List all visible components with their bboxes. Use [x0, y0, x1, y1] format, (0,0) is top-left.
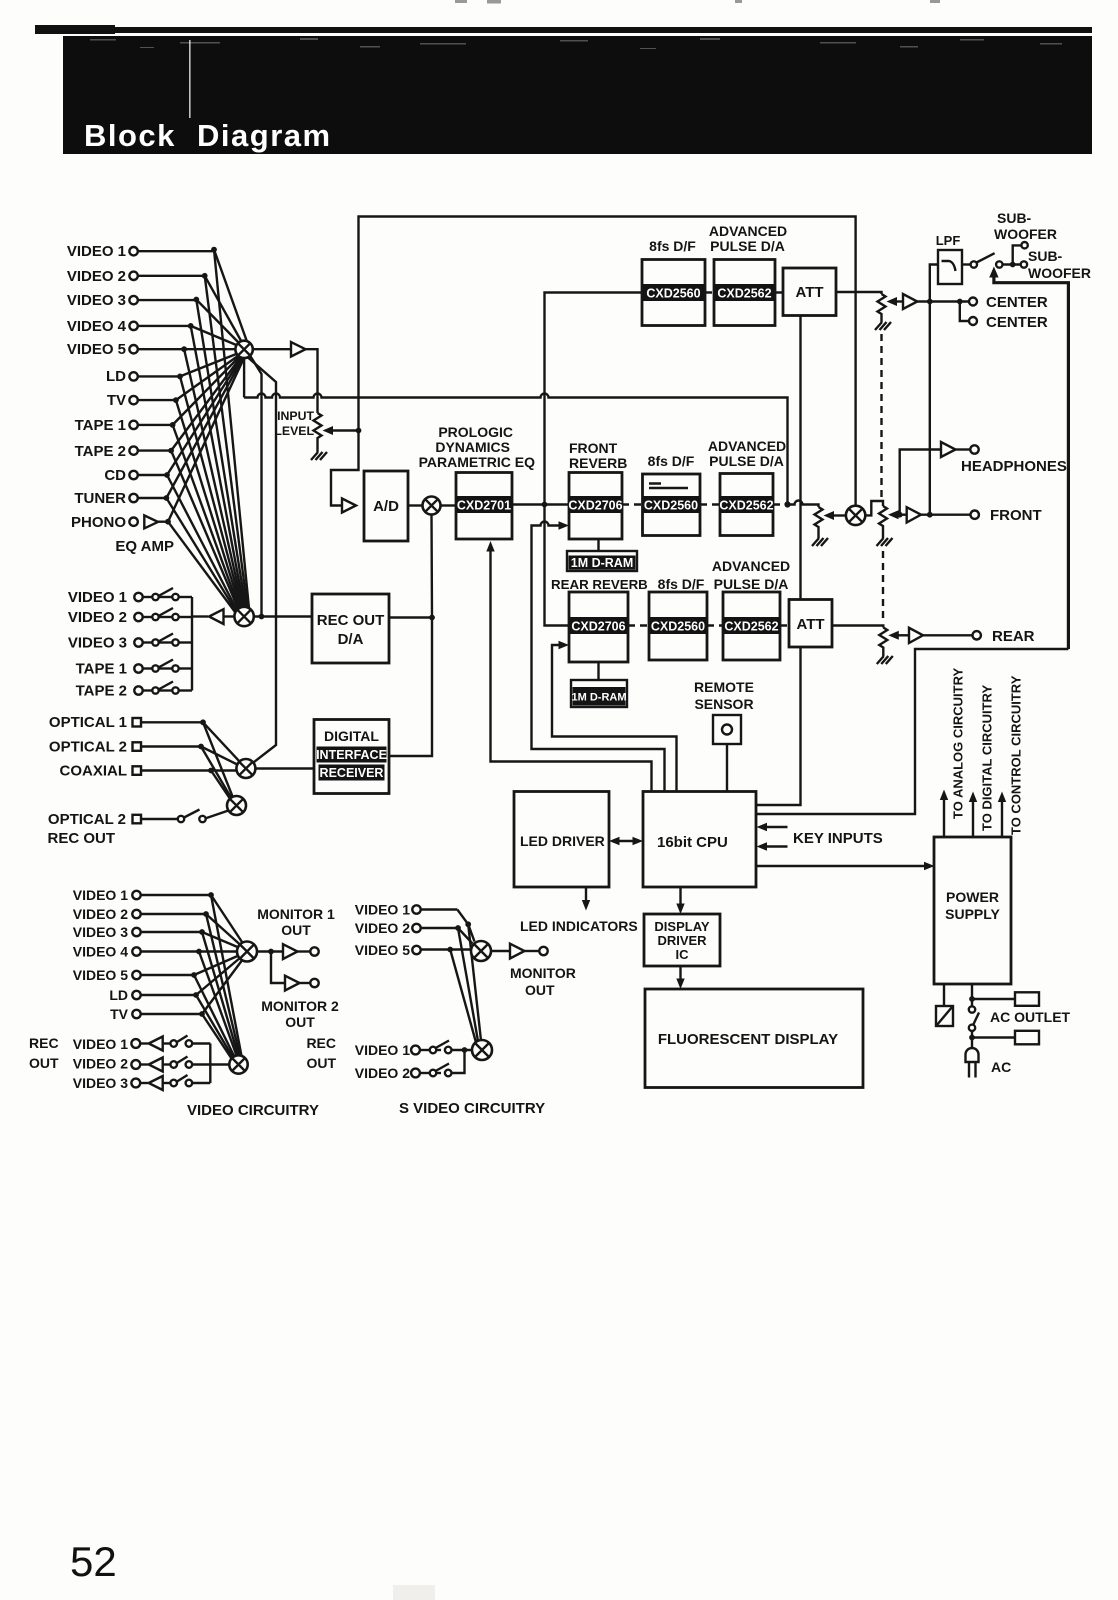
svg-text:LD: LD — [109, 987, 128, 1003]
receiver DIGITAL INTERFACE RECEIVER — [314, 720, 389, 794]
record out buffer amp — [192, 615, 208, 617]
ground (input level pot) — [311, 452, 327, 460]
svg-text:CXD2706: CXD2706 — [571, 620, 625, 634]
mixer M5 digital-select — [236, 759, 255, 778]
arrows: power supply outputs — [944, 798, 1002, 837]
svg-text:PULSE D/A: PULSE D/A — [710, 238, 785, 254]
svg-text:HEADPHONES: HEADPHONES — [961, 458, 1067, 475]
svg-text:A/D: A/D — [373, 498, 399, 515]
arrows KEY INPUTS into CPU — [763, 827, 788, 847]
svg-text:OUT: OUT — [306, 1055, 336, 1071]
switch subwoofer select — [962, 263, 971, 265]
svg-text:SUPPLY: SUPPLY — [945, 906, 1000, 922]
svg-text:TO ANALOG CIRCUITRY: TO ANALOG CIRCUITRY — [951, 667, 966, 819]
svg-text:INPUT: INPUT — [277, 409, 314, 423]
svg-text:VIDEO 4: VIDEO 4 — [73, 944, 128, 960]
svg-text:1M D-RAM: 1M D-RAM — [571, 556, 634, 570]
svg-text:OUT: OUT — [281, 922, 311, 938]
svg-text:TAPE 2: TAPE 2 — [76, 683, 127, 700]
wire + jack CENTER 2 — [960, 302, 969, 322]
svg-text:CD: CD — [104, 467, 126, 484]
wire: record line — [254, 615, 312, 617]
svg-text:OPTICAL 1: OPTICAL 1 — [49, 714, 127, 731]
svg-text:VIDEO 1: VIDEO 1 — [73, 1036, 128, 1052]
svg-text:1M D-RAM: 1M D-RAM — [572, 692, 627, 704]
input source labels VIDEO1-PHONO — [67, 243, 127, 531]
wires: fan to input-select mixer — [166, 250, 247, 522]
svg-text:OUT: OUT — [525, 982, 555, 998]
svg-text:INTERFACE: INTERFACE — [316, 748, 387, 762]
wire: main analog bus (with hop-overs) — [244, 394, 787, 505]
svg-text:DISPLAY: DISPLAY — [654, 919, 709, 934]
svg-text:OUT: OUT — [285, 1014, 315, 1030]
svg-text:CXD2562: CXD2562 — [724, 620, 778, 634]
svg-text:VIDEO 5: VIDEO 5 — [355, 942, 410, 958]
svg-text:SUB-: SUB- — [1028, 248, 1063, 264]
optical/coaxial connector squares — [133, 718, 142, 823]
mixer M9 s-video monitor select — [471, 941, 491, 961]
page top fragments — [455, 0, 940, 4]
svg-text:8fs D/F: 8fs D/F — [658, 576, 705, 592]
svg-text:KEY INPUTS: KEY INPUTS — [793, 830, 883, 847]
mixer M3 front sum — [846, 506, 865, 525]
wire: CPU control to CXD2701 — [491, 549, 652, 791]
svg-text:VIDEO 5: VIDEO 5 — [67, 341, 126, 358]
wire: mixer output down to main bus — [243, 358, 245, 398]
svg-text:REC OUT: REC OUT — [48, 830, 116, 847]
dashed gang line of volume pots — [882, 334, 884, 622]
switches: record out selectors — [138, 597, 192, 691]
svg-text:REC: REC — [29, 1035, 59, 1051]
svg-text:FRONT: FRONT — [569, 440, 618, 456]
svg-text:ATT: ATT — [796, 616, 824, 633]
svg-text:ADVANCED: ADVANCED — [712, 558, 790, 574]
wire: subwoofer feed from right bus — [994, 276, 1069, 649]
svg-text:CXD2560: CXD2560 — [644, 499, 698, 513]
svg-text:52: 52 — [70, 1538, 117, 1585]
svg-text:VIDEO 1: VIDEO 1 — [355, 902, 410, 918]
svg-text:PULSE D/A: PULSE D/A — [714, 576, 789, 592]
svg-text:8fs D/F: 8fs D/F — [648, 453, 695, 469]
wire: riser to record mixer line — [250, 356, 262, 617]
svg-text:VIDEO 2: VIDEO 2 — [355, 920, 410, 936]
svg-text:PHONO: PHONO — [71, 514, 126, 531]
svg-text:REAR: REAR — [992, 628, 1035, 645]
memory 1M D-RAM (rear reverb) — [597, 662, 599, 680]
svg-text:TV: TV — [110, 1006, 129, 1022]
wire: CPU to display driver arrow — [679, 887, 681, 907]
svg-text:VIDEO 2: VIDEO 2 — [68, 609, 127, 626]
svg-text:CENTER: CENTER — [986, 314, 1048, 331]
svg-text:TAPE 1: TAPE 1 — [75, 417, 126, 434]
sensor REMOTE SENSOR — [694, 679, 754, 791]
svg-text:CXD2560: CXD2560 — [646, 287, 700, 301]
svg-text:CXD2562: CXD2562 — [719, 499, 773, 513]
svg-text:TUNER: TUNER — [74, 490, 126, 507]
wire + buffer into A/D — [331, 431, 359, 506]
svg-text:FRONT: FRONT — [990, 507, 1042, 524]
svg-text:WOOFER: WOOFER — [1028, 265, 1091, 281]
wire: LED driver / CPU bus arrows — [615, 840, 637, 842]
DSP CXD2701 parametric EQ — [456, 473, 512, 540]
potentiometer center volume + ground — [878, 294, 886, 322]
svg-text:VIDEO CIRCUITRY: VIDEO CIRCUITRY — [187, 1102, 319, 1119]
attenuator ATT (rear) — [789, 600, 832, 648]
wires — [141, 721, 203, 723]
svg-text:REAR REVERB: REAR REVERB — [551, 577, 648, 592]
svg-text:LD: LD — [106, 368, 126, 385]
svg-text:VIDEO 5: VIDEO 5 — [73, 967, 128, 983]
riser row2->row1 and row2->row3 — [545, 293, 643, 505]
wires to digital-select mixer — [203, 722, 240, 761]
svg-text:CXD2560: CXD2560 — [651, 620, 705, 634]
headphones amp and jack — [900, 450, 941, 515]
svg-text:CXD2701: CXD2701 — [457, 499, 511, 513]
svg-text:SENSOR: SENSOR — [694, 696, 753, 712]
svg-text:16bit CPU: 16bit CPU — [657, 834, 728, 851]
wires: video fan to rec mixer — [194, 895, 242, 1063]
svg-text:DRIVER: DRIVER — [657, 933, 707, 948]
input wires — [138, 251, 236, 522]
svg-text:LED DRIVER: LED DRIVER — [520, 833, 605, 849]
input terminal jacks — [129, 247, 137, 526]
svg-text:OPTICAL 2: OPTICAL 2 — [49, 739, 127, 756]
svg-text:DIGITAL: DIGITAL — [324, 728, 379, 744]
svg-text:ATT: ATT — [795, 284, 823, 301]
mixer M8 video rec select — [229, 1055, 247, 1073]
wire: direct analog bus to front mixer — [359, 217, 856, 507]
wire: CPU to power supply arrow — [756, 865, 927, 867]
svg-text:VIDEO 2: VIDEO 2 — [73, 1056, 128, 1072]
svg-text:OUT: OUT — [29, 1055, 59, 1071]
svg-text:VIDEO 2: VIDEO 2 — [67, 268, 126, 285]
EQ AMP buffer (phono) — [144, 515, 158, 528]
potentiometer front pre volume + ground — [815, 507, 823, 538]
svg-text:AC: AC — [991, 1059, 1011, 1075]
svg-text:MONITOR: MONITOR — [510, 965, 576, 981]
svg-text:POWER: POWER — [946, 889, 999, 905]
svg-text:DYNAMICS: DYNAMICS — [435, 439, 510, 455]
svg-text:S VIDEO CIRCUITRY: S VIDEO CIRCUITRY — [399, 1100, 545, 1117]
svg-text:VIDEO 3: VIDEO 3 — [73, 924, 128, 940]
svg-text:VIDEO 1: VIDEO 1 — [67, 243, 126, 260]
svg-text:FLUORESCENT DISPLAY: FLUORESCENT DISPLAY — [658, 1031, 838, 1048]
svg-text:CXD2706: CXD2706 — [568, 499, 622, 513]
svg-text:VIDEO 2: VIDEO 2 — [73, 906, 128, 922]
mixer M2 post-A/D — [423, 497, 441, 515]
svg-text:REC OUT: REC OUT — [317, 612, 385, 629]
A/D converter U1 — [364, 471, 408, 541]
wire: CPU to right-side bus — [756, 649, 1068, 814]
amp + jack MONITOR 1 OUT — [257, 950, 283, 952]
fuse, power switch, AC outlets, AC plug — [943, 984, 945, 1006]
switch optical 2 rec out — [141, 818, 178, 820]
wire: record select bus — [191, 597, 193, 691]
wire: CPU control to front reverb — [532, 522, 665, 791]
svg-text:VIDEO 2: VIDEO 2 — [355, 1065, 410, 1081]
svg-text:TAPE 1: TAPE 1 — [76, 661, 127, 678]
svg-text:TV: TV — [107, 392, 126, 409]
svg-text:IC: IC — [676, 947, 690, 962]
wires: video fan to monitor mixer — [194, 895, 243, 1014]
svg-text:REC: REC — [306, 1035, 336, 1051]
potentiometer rear volume + ground — [879, 628, 887, 657]
svg-text:PROLOGIC: PROLOGIC — [438, 424, 513, 440]
svg-text:EQ AMP: EQ AMP — [115, 538, 174, 555]
svg-text:RECEIVER: RECEIVER — [320, 766, 384, 780]
header banner — [63, 36, 1092, 154]
svg-text:LPF: LPF — [936, 233, 961, 248]
svg-text:CENTER: CENTER — [986, 294, 1048, 311]
svg-text:VIDEO 3: VIDEO 3 — [68, 635, 127, 652]
svg-text:SUB-: SUB- — [997, 210, 1032, 226]
svg-text:WOOFER: WOOFER — [994, 226, 1057, 242]
mixer M10 s-video rec select — [472, 1040, 492, 1060]
svg-text:VIDEO 1: VIDEO 1 — [68, 589, 127, 606]
wires: fan to record-select mixer — [166, 250, 249, 616]
svg-text:VIDEO 3: VIDEO 3 — [73, 1075, 128, 1091]
wire VIDEO1 — [138, 250, 214, 252]
wire: CPU control to rear reverb — [552, 645, 677, 791]
svg-text:ADVANCED: ADVANCED — [709, 223, 787, 239]
wire segments row2 — [512, 503, 569, 505]
potentiometer INPUT LEVEL — [314, 413, 322, 452]
svg-text:CXD2562: CXD2562 — [717, 287, 771, 301]
mixer M7 video monitor select — [237, 942, 257, 962]
buffer amp after M1 — [253, 348, 291, 350]
svg-text:Block Diagram: Block Diagram — [84, 118, 332, 153]
amp + jack MONITOR 2 OUT — [271, 952, 285, 984]
svg-text:VIDEO 1: VIDEO 1 — [73, 887, 128, 903]
svg-text:REVERB: REVERB — [569, 455, 627, 471]
svg-text:TAPE 2: TAPE 2 — [75, 443, 126, 460]
wire: digital interface riser — [389, 515, 432, 757]
svg-text:MONITOR 2: MONITOR 2 — [261, 998, 339, 1014]
memory 1M D-RAM (front reverb) — [597, 539, 599, 551]
svg-text:REMOTE: REMOTE — [694, 679, 754, 695]
svg-text:VIDEO 3: VIDEO 3 — [67, 292, 126, 309]
mixer M4 record-select — [234, 607, 253, 626]
wiper arrow of INPUT LEVEL pot — [323, 426, 334, 435]
mixer M6 optical rec-out — [227, 796, 246, 815]
mixer M1 input-select — [235, 341, 252, 358]
wire: LPF feed riser — [930, 265, 938, 515]
svg-text:ADVANCED: ADVANCED — [708, 438, 786, 454]
svg-text:COAXIAL: COAXIAL — [60, 763, 128, 780]
converter REC OUT D/A — [312, 594, 389, 663]
svg-text:D/A: D/A — [338, 631, 364, 648]
svg-text:VIDEO 4: VIDEO 4 — [67, 318, 127, 335]
wire to front main volume — [865, 501, 883, 515]
junction dots on input wires — [164, 247, 217, 525]
svg-text:MONITOR 1: MONITOR 1 — [257, 906, 335, 922]
svg-text:8fs D/F: 8fs D/F — [649, 238, 696, 254]
svg-text:PULSE D/A: PULSE D/A — [709, 453, 784, 469]
AC plug symbol — [966, 1048, 979, 1062]
svg-text:OPTICAL 2: OPTICAL 2 — [48, 811, 126, 828]
wire: ATT mute control riser from CPU — [756, 316, 801, 806]
svg-text:PARAMETRIC EQ: PARAMETRIC EQ — [419, 454, 536, 470]
attenuator ATT (center) — [783, 268, 836, 316]
header thin rule — [35, 25, 115, 34]
svg-text:VIDEO 1: VIDEO 1 — [355, 1042, 410, 1058]
arrow to LED indicators — [585, 887, 587, 903]
svg-text:LEVEL: LEVEL — [274, 424, 314, 438]
svg-text:LED INDICATORS: LED INDICATORS — [520, 918, 638, 934]
wire: riser to digital-select mixer — [248, 358, 276, 766]
svg-text:TO CONTROL CIRCUITRY: TO CONTROL CIRCUITRY — [1009, 675, 1024, 835]
svg-text:TO DIGITAL CIRCUITRY: TO DIGITAL CIRCUITRY — [980, 685, 995, 831]
svg-text:AC OUTLET: AC OUTLET — [990, 1009, 1071, 1025]
potentiometer front main volume + ground — [879, 506, 887, 538]
wires to optical rec-out mixer — [203, 722, 233, 797]
